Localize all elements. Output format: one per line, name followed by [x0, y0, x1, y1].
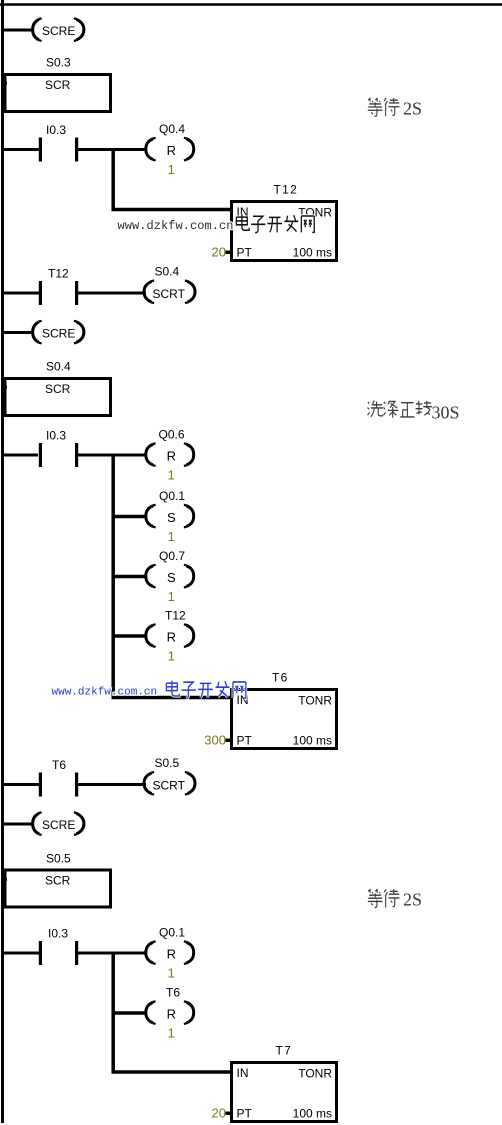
wire to SCRE coil 1	[1, 29, 34, 32]
coil S0.5 SCRT	[144, 756, 195, 794]
contact I0.3 third	[39, 927, 78, 966]
wire PT stub T6	[226, 739, 232, 743]
contact T6	[39, 758, 78, 797]
coil Q0.6 R	[146, 428, 194, 483]
svg-text:TONR: TONR	[298, 694, 332, 708]
comment 3	[368, 889, 422, 909]
svg-text:20: 20	[212, 1106, 226, 1121]
wire rail to SCR box pin	[1, 82, 7, 85]
wire rail to SCR box pin	[1, 878, 7, 881]
wire PT stub T7	[226, 1112, 232, 1116]
svg-text:IN: IN	[237, 1066, 249, 1080]
contact I0.3 second	[39, 429, 78, 468]
svg-text:T12: T12	[48, 267, 69, 281]
svg-text:Q0.1: Q0.1	[159, 926, 185, 940]
svg-text:I0.3: I0.3	[48, 927, 68, 941]
svg-text:SCR: SCR	[45, 382, 71, 396]
wire branch to timer T7	[112, 1070, 233, 1074]
wire PT stub T12	[226, 251, 232, 255]
contact I0.3	[39, 123, 78, 162]
svg-text:SCRT: SCRT	[153, 778, 186, 792]
SCR box S0.5	[5, 870, 111, 907]
svg-text:TONR: TONR	[298, 1067, 332, 1081]
coil SCRE 1	[33, 18, 84, 41]
coil Q0.1 S	[146, 489, 194, 544]
timer T7 TONR box	[232, 1063, 337, 1122]
wire contact T12 to coil SCRT	[77, 292, 146, 295]
coil T12 R	[146, 609, 194, 664]
wire stub to coil T12	[112, 634, 146, 638]
svg-text:2S: 2S	[403, 99, 422, 119]
svg-text:SCRE: SCRE	[42, 818, 75, 832]
wire contact to coil Q0.6	[77, 454, 147, 457]
top separator line	[0, 3, 502, 6]
svg-text:Q0.7: Q0.7	[159, 549, 185, 563]
wire stub to coil Q0.1	[112, 515, 146, 519]
svg-text:S0.5: S0.5	[46, 852, 71, 866]
svg-text:PT: PT	[237, 246, 253, 260]
wire to SCRE coil 2	[1, 331, 34, 334]
svg-text:100 ms: 100 ms	[293, 246, 332, 260]
coil Q0.7 S	[146, 549, 194, 604]
svg-text:1: 1	[168, 965, 175, 980]
left power rail	[1, 0, 4, 1123]
wire branch vertical network S0.4	[111, 455, 115, 698]
svg-text:Q0.1: Q0.1	[159, 489, 185, 503]
wire rail to contact I0.3 rung 4	[1, 454, 38, 457]
coil Q0.4 R	[146, 122, 194, 177]
svg-text:1: 1	[168, 648, 175, 663]
svg-text:T12: T12	[165, 609, 186, 623]
coil Q0.1 R second	[146, 926, 194, 981]
timer T6 TONR box	[232, 690, 337, 749]
svg-text:R: R	[167, 629, 176, 644]
svg-text:SCRE: SCRE	[42, 326, 75, 340]
wire stub to coil T6	[112, 1011, 146, 1015]
wire rail to contact I0.3 rung 6	[1, 952, 40, 955]
svg-text:I0.3: I0.3	[46, 429, 66, 443]
SCR box S0.4	[5, 379, 111, 416]
svg-text:www.dzkfw.com.cn: www.dzkfw.com.cn	[52, 687, 158, 699]
svg-text:T6: T6	[272, 671, 289, 685]
svg-text:www.dzkfw.com.cn: www.dzkfw.com.cn	[118, 219, 234, 233]
watermark CJK blue	[166, 681, 245, 699]
wire rail to contact T6 rung 5	[1, 783, 40, 786]
svg-text:R: R	[167, 448, 176, 463]
svg-text:SCRE: SCRE	[42, 24, 75, 38]
svg-text:300: 300	[204, 733, 226, 748]
svg-text:T7: T7	[276, 1044, 293, 1058]
wire to SCRE coil 3	[1, 823, 34, 826]
svg-text:S: S	[167, 570, 176, 585]
svg-text:T6: T6	[166, 986, 180, 1000]
svg-text:R: R	[167, 946, 176, 961]
SCR box S0.3	[5, 75, 111, 112]
svg-text:SCRT: SCRT	[153, 287, 186, 301]
svg-text:T12: T12	[274, 183, 299, 197]
svg-text:Q0.6: Q0.6	[159, 428, 185, 442]
svg-text:SCR: SCR	[45, 78, 71, 92]
wire contact to coil Q0.1	[78, 952, 148, 955]
svg-text:1: 1	[168, 529, 175, 544]
svg-text:I0.3: I0.3	[46, 123, 66, 137]
svg-text:PT: PT	[237, 1107, 253, 1121]
wire stub to coil Q0.7	[112, 575, 146, 579]
wire branch to timer T6	[112, 696, 233, 700]
watermark CJK black	[236, 215, 314, 233]
coil T6 R	[146, 986, 194, 1041]
svg-text:30S: 30S	[432, 403, 460, 423]
svg-text:2S: 2S	[403, 890, 422, 910]
svg-text:100 ms: 100 ms	[293, 1107, 332, 1121]
svg-text:PT: PT	[237, 734, 253, 748]
svg-text:1: 1	[168, 1025, 175, 1040]
svg-text:S0.4: S0.4	[46, 360, 71, 374]
svg-text:Q0.4: Q0.4	[159, 122, 185, 136]
svg-text:R: R	[167, 1006, 176, 1021]
wire branch down to timer T12	[113, 150, 232, 210]
wire rail to contact T12 rung 3	[1, 292, 40, 295]
coil S0.4 SCRT	[144, 265, 195, 303]
svg-text:20: 20	[212, 245, 226, 260]
contact T12	[39, 267, 78, 306]
svg-text:1: 1	[168, 162, 175, 177]
svg-text:1: 1	[168, 467, 175, 482]
wire contact to coil Q0.4	[77, 148, 147, 151]
timer T12 TONR box	[232, 202, 337, 261]
svg-text:T6: T6	[52, 758, 66, 772]
wire contact T6 to coil SCRT 2	[77, 783, 146, 786]
coil SCRE 3	[33, 812, 84, 835]
coil SCRE 2	[33, 321, 84, 344]
svg-text:S0.4: S0.4	[155, 265, 180, 279]
svg-text:R: R	[167, 143, 176, 158]
wire rail to contact I0.3 rung 2	[1, 148, 40, 151]
svg-text:1: 1	[168, 589, 175, 604]
svg-text:S0.5: S0.5	[155, 756, 180, 770]
comment 1	[368, 98, 422, 119]
wire branch vertical network S0.5	[111, 953, 115, 1072]
svg-text:100 ms: 100 ms	[293, 734, 332, 748]
comment 2	[368, 401, 460, 423]
svg-text:S: S	[167, 510, 176, 525]
wire rail to SCR box pin	[1, 386, 7, 389]
svg-text:SCR: SCR	[45, 873, 71, 887]
svg-text:S0.3: S0.3	[46, 56, 71, 70]
